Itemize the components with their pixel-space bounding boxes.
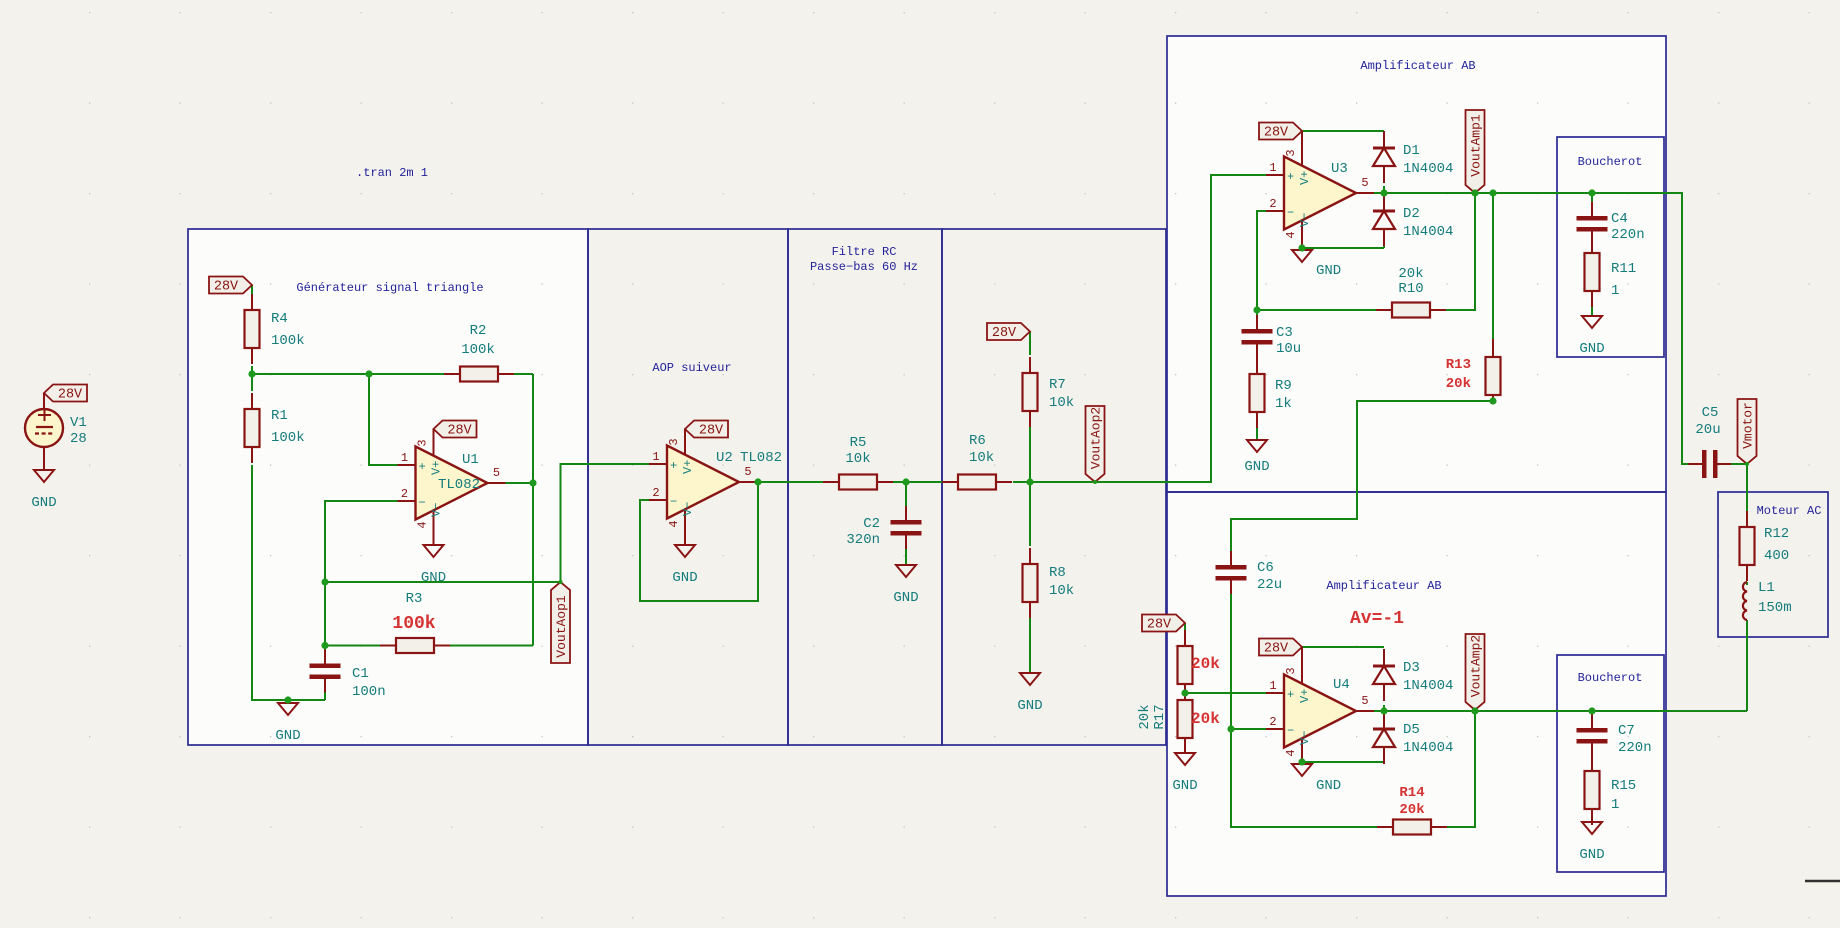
svg-text:V−: V−	[1298, 213, 1312, 227]
wire U2 feedback loop	[640, 482, 758, 601]
resistor R15	[1591, 755, 1593, 771]
ground at U4	[1292, 764, 1312, 776]
svg-text:28V: 28V	[1264, 126, 1289, 141]
svg-text:R10: R10	[1398, 281, 1423, 297]
wire U1 out	[506, 482, 534, 484]
wire C4 top	[1591, 193, 1593, 216]
wire U3 pin2 down	[1257, 211, 1266, 315]
wire top rail	[252, 373, 533, 375]
svg-text:100k: 100k	[271, 333, 305, 349]
svg-text:Vmotor: Vmotor	[1741, 402, 1756, 449]
wire to R13	[1492, 193, 1494, 339]
wire 28V flag to D1	[1302, 130, 1384, 132]
svg-text:VoutAop1: VoutAop1	[554, 595, 569, 658]
svg-text:1N4004: 1N4004	[1403, 678, 1453, 694]
junction R17 mid	[1181, 689, 1188, 696]
svg-text:20k: 20k	[1398, 266, 1423, 282]
svg-text:28V: 28V	[447, 424, 472, 439]
ground at R9	[1247, 440, 1267, 452]
svg-text:GND: GND	[893, 590, 918, 606]
wire R3 right	[434, 645, 533, 647]
svg-text:R11: R11	[1611, 261, 1636, 277]
wire U4 output	[1373, 710, 1747, 712]
wire C3 to R9	[1256, 344, 1258, 360]
wire R11 to gnd	[1591, 305, 1593, 316]
wire D5 bottom	[1383, 757, 1385, 762]
svg-text:28V: 28V	[214, 280, 239, 295]
svg-text:R5: R5	[850, 435, 867, 451]
ground at R8	[1020, 673, 1040, 685]
svg-text:GND: GND	[31, 495, 56, 511]
svg-text:VoutAmp1: VoutAmp1	[1469, 114, 1484, 177]
svg-text:+: +	[1287, 688, 1294, 702]
svg-text:−: −	[670, 495, 677, 509]
svg-text:4: 4	[1284, 231, 1298, 238]
svg-text:GND: GND	[421, 570, 446, 586]
resistor R8	[1029, 548, 1031, 564]
junction U2 output	[754, 478, 761, 485]
wire R17b to gnd	[1184, 753, 1186, 754]
svg-text:GND: GND	[275, 728, 300, 744]
svg-text:U4: U4	[1333, 677, 1350, 693]
junction C1 ground	[284, 696, 291, 703]
svg-text:GND: GND	[1316, 263, 1341, 279]
svg-text:10k: 10k	[845, 451, 870, 467]
svg-text:320n: 320n	[846, 532, 880, 548]
junction pin1 branch	[365, 370, 372, 377]
svg-text:Moteur AC: Moteur AC	[1757, 504, 1822, 518]
svg-text:TL082: TL082	[740, 450, 782, 466]
svg-text:20k: 20k	[1191, 710, 1220, 728]
capacitor C6	[1230, 551, 1232, 565]
resistor R9	[1256, 358, 1258, 374]
svg-text:3: 3	[416, 439, 430, 446]
svg-text:V+: V+	[1298, 171, 1312, 185]
svg-text:R13: R13	[1446, 357, 1471, 373]
box Generateur signal triangle	[188, 229, 588, 745]
svg-text:C4: C4	[1611, 211, 1628, 227]
svg-text:Boucherot: Boucherot	[1578, 155, 1643, 169]
power flag 28V at U3	[1259, 123, 1302, 140]
junction U1 output	[529, 479, 536, 486]
sheet frame line	[1805, 880, 1840, 883]
wire R10 right riser	[1445, 193, 1475, 310]
svg-text:10k: 10k	[969, 450, 994, 466]
svg-text:22u: 22u	[1257, 577, 1282, 593]
svg-text:3: 3	[667, 438, 681, 445]
junction R4/R1/rail	[248, 370, 255, 377]
svg-text:R4: R4	[271, 311, 288, 327]
svg-text:R1: R1	[271, 408, 288, 424]
power flag 28V at U2	[685, 421, 728, 438]
svg-text:GND: GND	[672, 570, 697, 586]
wire R7 to R8 through junction	[1029, 427, 1031, 546]
svg-text:2: 2	[1269, 197, 1276, 211]
svg-text:TL082: TL082	[438, 477, 480, 493]
wire R12 to L1	[1746, 582, 1748, 585]
wire main to U3 pin1	[1013, 175, 1266, 482]
ground at R11	[1582, 316, 1602, 328]
net label VoutAmp1	[1466, 110, 1485, 193]
svg-text:+: +	[1287, 170, 1294, 184]
box divider R6-R8 section	[942, 229, 1166, 745]
wire to R10 left	[1257, 309, 1380, 311]
resistor R13	[1492, 339, 1494, 357]
ground at C1	[278, 703, 298, 715]
wire 28V flag to D3	[1302, 646, 1384, 648]
wire to U4 pin2	[1231, 728, 1266, 730]
wire 28V to R7	[1029, 332, 1031, 356]
svg-text:1: 1	[1611, 283, 1619, 299]
box Moteur AC	[1718, 492, 1828, 637]
wire C1 bottom	[324, 689, 326, 700]
capacitor C5	[1688, 463, 1702, 465]
wire U1 pin2 feedback	[325, 501, 398, 667]
resistor R14	[1377, 826, 1393, 828]
svg-text:10u: 10u	[1276, 341, 1301, 357]
ground at U1	[424, 545, 444, 557]
svg-text:4: 4	[416, 521, 430, 528]
op-amp U3	[1266, 174, 1284, 176]
svg-text:2: 2	[401, 487, 408, 501]
svg-text:1: 1	[1269, 161, 1276, 175]
box Boucherot top	[1557, 137, 1664, 357]
svg-text:28V: 28V	[1264, 642, 1289, 657]
svg-text:28V: 28V	[1147, 618, 1172, 633]
svg-text:10k: 10k	[1049, 583, 1074, 599]
svg-text:20k: 20k	[1137, 704, 1153, 729]
svg-text:100k: 100k	[461, 342, 495, 358]
resistor R17a	[1184, 630, 1186, 646]
svg-text:400: 400	[1764, 548, 1789, 564]
wire C2 to gnd	[905, 544, 907, 565]
junction U3 ground	[1298, 244, 1305, 251]
svg-text:U2: U2	[716, 450, 733, 466]
power flag 28V at R7	[987, 323, 1030, 340]
ground at U2	[675, 545, 695, 557]
svg-text:C7: C7	[1618, 723, 1635, 739]
svg-text:R17: R17	[1152, 704, 1168, 729]
resistor R10	[1376, 309, 1392, 311]
svg-text:Générateur signal triangle: Générateur signal triangle	[296, 281, 483, 295]
svg-text:−: −	[1287, 206, 1294, 220]
junction R6/R7/R8	[1026, 478, 1033, 485]
diode D3	[1383, 649, 1385, 666]
resistor R17b	[1184, 684, 1186, 700]
wire C6 to R14	[1231, 592, 1381, 827]
svg-text:Amplificateur AB: Amplificateur AB	[1360, 59, 1475, 73]
wire 28V to R17a	[1184, 623, 1186, 631]
capacitor C4	[1591, 202, 1593, 216]
svg-text:GND: GND	[1579, 847, 1604, 863]
junction VoutAmp1	[1471, 189, 1478, 196]
svg-text:L1: L1	[1758, 580, 1775, 596]
junction VoutAmp2	[1471, 707, 1478, 714]
svg-text:U3: U3	[1331, 161, 1348, 177]
power flag 28V at U4	[1259, 639, 1302, 656]
svg-text:1N4004: 1N4004	[1403, 161, 1453, 177]
wire junction to R1	[251, 374, 253, 391]
wire D2 to gnd	[1302, 247, 1384, 249]
junction D1/D2 output	[1380, 189, 1387, 196]
svg-text:GND: GND	[1579, 341, 1604, 357]
voltage source V1	[43, 393, 45, 409]
junction C4 tap	[1588, 189, 1595, 196]
svg-text:20k: 20k	[1446, 376, 1471, 392]
svg-text:−: −	[1287, 724, 1294, 738]
diode D5	[1383, 712, 1385, 729]
resistor R12	[1746, 511, 1748, 527]
resistor R5	[823, 481, 839, 483]
ground at V1	[34, 470, 54, 482]
wire R5 to R6	[891, 481, 946, 483]
junction U4 pin2 tap	[1227, 725, 1234, 732]
svg-text:R9: R9	[1275, 378, 1292, 394]
svg-text:28V: 28V	[992, 326, 1017, 341]
wire to C7	[1591, 711, 1593, 716]
svg-text:GND: GND	[1244, 459, 1269, 475]
svg-text:D5: D5	[1403, 722, 1420, 738]
junction D3/D5 output	[1380, 707, 1387, 714]
junction C7 tap	[1588, 707, 1595, 714]
resistor R7	[1029, 357, 1031, 373]
wire VoutAop1 net	[325, 581, 561, 583]
svg-text:C5: C5	[1702, 405, 1719, 421]
svg-text:VoutAmp2: VoutAmp2	[1469, 635, 1484, 697]
svg-text:28V: 28V	[58, 388, 83, 403]
svg-text:5: 5	[744, 465, 751, 479]
svg-text:4: 4	[1284, 749, 1298, 756]
wire D5 to gnd	[1302, 761, 1384, 763]
svg-text:R7: R7	[1049, 377, 1066, 393]
diode D2	[1383, 194, 1385, 211]
svg-text:28V: 28V	[699, 424, 724, 439]
wire to U4 pin1	[1185, 692, 1266, 694]
junction U4 ground	[1298, 758, 1305, 765]
wire R9 to gnd	[1256, 427, 1258, 440]
svg-text:1: 1	[1611, 797, 1619, 813]
wire to R12	[1746, 464, 1748, 511]
svg-text:R12: R12	[1764, 526, 1789, 542]
svg-text:Amplificateur AB: Amplificateur AB	[1326, 579, 1441, 593]
svg-text:Filtre RC: Filtre RC	[832, 245, 897, 259]
svg-text:100k: 100k	[271, 430, 305, 446]
svg-text:AOP suiveur: AOP suiveur	[652, 361, 731, 375]
svg-text:2: 2	[652, 486, 659, 500]
svg-text:3: 3	[1284, 667, 1298, 674]
svg-text:4: 4	[667, 520, 681, 527]
svg-text:D2: D2	[1403, 206, 1420, 222]
svg-text:C2: C2	[863, 516, 880, 532]
svg-text:Boucherot: Boucherot	[1578, 671, 1643, 685]
resistor R11	[1591, 237, 1593, 253]
svg-text:D1: D1	[1403, 143, 1420, 159]
wire 28V to R4	[251, 285, 253, 296]
svg-text:100k: 100k	[392, 614, 435, 634]
svg-text:.tran 2m 1: .tran 2m 1	[356, 166, 428, 180]
svg-text:R6: R6	[969, 433, 986, 449]
resistor R6	[942, 481, 958, 483]
box Amplificateur AB bottom	[1167, 492, 1666, 896]
svg-text:−: −	[419, 496, 426, 510]
capacitor C7	[1591, 714, 1593, 728]
wire to R3 left	[325, 645, 384, 647]
ground at R17	[1175, 753, 1195, 765]
wire to U1 pin1	[369, 374, 398, 465]
svg-text:Passe−bas 60 Hz: Passe−bas 60 Hz	[810, 260, 918, 274]
wire U2 out	[757, 481, 825, 483]
svg-text:2: 2	[1269, 715, 1276, 729]
wire R1 bottom to gnd rail	[252, 465, 325, 700]
svg-text:1: 1	[401, 451, 408, 465]
wire D2 bottom	[1383, 240, 1385, 248]
capacitor C3	[1256, 315, 1258, 329]
net label VoutAop1	[551, 582, 570, 663]
op-amp U4	[1266, 692, 1284, 694]
wire D1 to junction	[1383, 186, 1385, 200]
svg-text:1: 1	[652, 450, 659, 464]
wire output to C5	[1592, 193, 1694, 464]
box Filtre RC	[788, 229, 942, 745]
wire down to R3	[532, 483, 534, 646]
net label Vmotor	[1738, 399, 1757, 464]
svg-text:5: 5	[1361, 694, 1368, 708]
wire R2 right riser	[532, 374, 534, 483]
svg-text:10k: 10k	[1049, 395, 1074, 411]
resistor R4	[251, 294, 253, 310]
junction R13 top	[1489, 189, 1496, 196]
wire L1 down to output	[1746, 620, 1748, 711]
svg-text:GND: GND	[1017, 698, 1042, 714]
svg-text:V−: V−	[1298, 731, 1312, 745]
svg-text:R3: R3	[406, 591, 423, 607]
svg-text:V−: V−	[430, 503, 444, 517]
svg-text:V1: V1	[70, 415, 87, 431]
svg-text:C6: C6	[1257, 560, 1274, 576]
op-amp U1	[398, 464, 416, 466]
svg-text:R15: R15	[1611, 778, 1636, 794]
wire R8 to gnd	[1029, 618, 1031, 673]
svg-text:GND: GND	[1316, 778, 1341, 794]
svg-text:R2: R2	[470, 323, 487, 339]
wire D3 to junction	[1383, 705, 1385, 717]
diode D1	[1383, 131, 1385, 148]
svg-text:+: +	[670, 459, 677, 473]
resistor R2	[444, 373, 460, 375]
svg-text:3: 3	[1284, 149, 1298, 156]
power flag 28V at U1	[434, 421, 477, 438]
wire C7 to R15	[1591, 754, 1593, 755]
wire to C2	[905, 482, 907, 506]
power flag 28V at R4	[209, 277, 252, 294]
svg-text:R8: R8	[1049, 565, 1066, 581]
ground at U3	[1292, 250, 1312, 262]
svg-text:V−: V−	[681, 502, 695, 516]
box Amplificateur AB top	[1167, 36, 1666, 492]
junction C2 tap	[902, 478, 909, 485]
svg-text:R14: R14	[1399, 785, 1424, 801]
box AOP suiveur	[588, 229, 788, 745]
svg-text:C3: C3	[1276, 325, 1293, 341]
resistor R3	[380, 645, 396, 647]
wire to U2 pin1	[561, 464, 650, 582]
net label VoutAop2	[1086, 406, 1105, 482]
svg-text:220n: 220n	[1611, 227, 1645, 243]
svg-text:20k: 20k	[1191, 655, 1220, 673]
svg-text:1: 1	[1269, 679, 1276, 693]
svg-text:20k: 20k	[1399, 802, 1424, 818]
resistor R1	[251, 393, 253, 409]
capacitor C2	[905, 506, 907, 520]
wire R13 to C6	[1231, 397, 1493, 553]
svg-text:C1: C1	[352, 666, 369, 682]
svg-text:1N4004: 1N4004	[1403, 740, 1453, 756]
ground at C2	[896, 565, 916, 577]
junction VoutAop1	[321, 578, 328, 585]
capacitor C1	[324, 650, 326, 664]
wire R15 to gnd	[1591, 822, 1593, 823]
svg-text:Av=-1: Av=-1	[1350, 609, 1404, 629]
svg-text:+: +	[419, 460, 426, 474]
svg-text:220n: 220n	[1618, 740, 1652, 756]
junction C3/R10	[1253, 306, 1260, 313]
svg-text:100n: 100n	[352, 684, 386, 700]
svg-text:5: 5	[493, 466, 500, 480]
svg-text:V+: V+	[430, 461, 444, 475]
svg-text:V+: V+	[1298, 689, 1312, 703]
svg-text:GND: GND	[1172, 778, 1197, 794]
junction R13 bottom	[1489, 397, 1496, 404]
svg-text:28: 28	[70, 431, 87, 447]
power flag 28V at V1	[44, 385, 87, 402]
svg-text:150m: 150m	[1758, 600, 1792, 616]
op-amp U2	[649, 463, 667, 465]
ground at R15	[1582, 822, 1602, 834]
wire R14 to output	[1445, 711, 1475, 827]
svg-text:VoutAop2: VoutAop2	[1089, 407, 1104, 469]
inductor L1	[1743, 582, 1747, 620]
wire U3 output	[1373, 192, 1592, 194]
svg-text:5: 5	[1361, 176, 1368, 190]
svg-text:1k: 1k	[1275, 396, 1292, 412]
wire R4 to junction	[251, 366, 253, 374]
box Boucherot bottom	[1557, 655, 1664, 872]
junction R3 left	[321, 642, 328, 649]
net label VoutAmp2	[1466, 634, 1485, 710]
svg-text:V+: V+	[681, 460, 695, 474]
svg-text:D3: D3	[1403, 660, 1420, 676]
svg-text:1N4004: 1N4004	[1403, 224, 1453, 240]
svg-text:20u: 20u	[1695, 422, 1720, 438]
power flag 28V at R17	[1142, 615, 1185, 632]
wire C5 to motor	[1720, 463, 1747, 465]
svg-text:U1: U1	[462, 452, 479, 468]
